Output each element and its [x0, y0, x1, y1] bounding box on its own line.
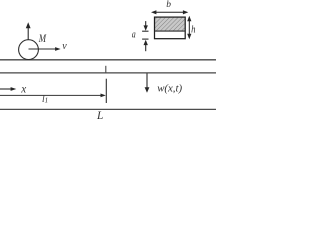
svg-text:M: M — [38, 33, 47, 46]
deflection arrow w — [145, 74, 150, 93]
dimension h line — [187, 16, 191, 39]
dimension a lower arrow — [142, 39, 148, 51]
dimension a upper arrow — [142, 21, 148, 31]
label a — [132, 29, 136, 40]
label h — [191, 24, 195, 36]
cross-section layer boundary — [155, 30, 186, 32]
svg-text:l1: l1 — [42, 95, 48, 105]
svg-text:b: b — [166, 0, 171, 10]
x axis arrow — [0, 87, 16, 91]
label M — [38, 33, 47, 46]
L dimension line — [0, 108, 216, 110]
beam top edge — [0, 59, 216, 61]
beam bottom edge — [0, 72, 216, 74]
moment arrow — [26, 22, 31, 40]
mass circle — [19, 40, 39, 60]
dimension b line — [151, 10, 188, 14]
l1 dimension line — [0, 94, 106, 98]
velocity arrow — [29, 47, 61, 51]
position tick at l1 — [105, 79, 107, 103]
svg-text:x: x — [20, 84, 26, 96]
svg-text:h: h — [191, 24, 195, 36]
cross-section outline — [155, 17, 186, 39]
svg-text:v: v — [62, 41, 67, 52]
svg-text:L: L — [96, 110, 103, 120]
svg-text:a: a — [132, 29, 136, 40]
svg-text:w(x,t): w(x,t) — [157, 82, 182, 94]
section tick on beam — [105, 66, 107, 73]
cross-section hatched flange — [155, 18, 185, 32]
